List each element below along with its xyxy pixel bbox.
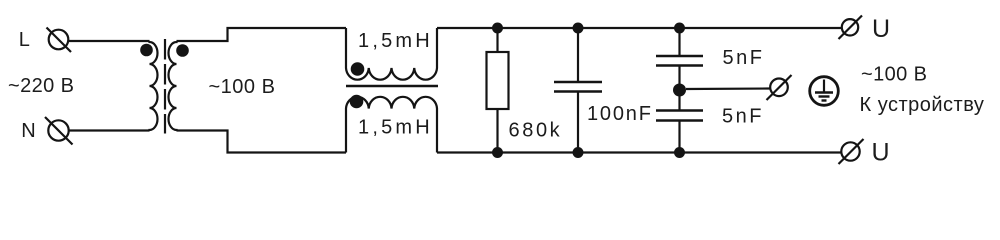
svg-text:~220 В: ~220 В bbox=[8, 75, 74, 97]
svg-text:~100 В: ~100 В bbox=[861, 64, 927, 86]
wire bottom rail bbox=[437, 151, 841, 153]
svg-text:U: U bbox=[872, 139, 890, 167]
inductor L2 polarity dot bbox=[350, 95, 364, 109]
junction node bottom of C3 bbox=[674, 147, 685, 158]
wire N to transformer primary bottom bbox=[70, 129, 150, 131]
capacitor C3 5nF bottom bbox=[656, 96, 703, 153]
inductor L1 polarity dot bbox=[351, 62, 365, 76]
svg-text:N: N bbox=[21, 120, 35, 142]
terminal U top bbox=[839, 16, 863, 40]
transformer T1 core (dashed) bbox=[164, 39, 166, 134]
junction node top of R1 bbox=[492, 23, 503, 34]
capacitor C1 100nF bbox=[554, 28, 602, 153]
junction node between C2 and C3 bbox=[673, 84, 686, 97]
terminal N bbox=[45, 117, 73, 145]
transformer T1 primary polarity dot bbox=[140, 44, 153, 57]
junction node bottom of R1 bbox=[492, 147, 503, 158]
wire secondary top to choke bbox=[177, 28, 347, 41]
transformer T1 secondary winding bbox=[169, 41, 177, 131]
svg-text:К устройству: К устройству bbox=[860, 94, 985, 116]
wire capacitor midpoint to earth terminal bbox=[686, 87, 770, 90]
svg-text:U: U bbox=[872, 15, 890, 43]
junction node top of C2 bbox=[674, 23, 685, 34]
inductor L1 top choke winding bbox=[346, 28, 437, 80]
junction node bottom of C1 bbox=[573, 147, 584, 158]
wire top rail bbox=[437, 27, 841, 29]
resistor R1 680k bbox=[487, 28, 509, 153]
terminal L bbox=[47, 28, 72, 53]
junction node top of C1 bbox=[573, 23, 584, 34]
choke core line bbox=[346, 85, 438, 88]
inductor L2 bottom choke winding bbox=[346, 97, 437, 153]
transformer T1 secondary polarity dot bbox=[176, 44, 189, 57]
svg-text:5nF: 5nF bbox=[722, 106, 764, 128]
wire L to transformer primary top bbox=[69, 40, 150, 42]
svg-text:680k: 680k bbox=[509, 120, 563, 142]
svg-text:5nF: 5nF bbox=[723, 47, 765, 69]
terminal U bottom bbox=[839, 139, 864, 164]
protective earth symbol bbox=[810, 77, 839, 106]
wire secondary bottom to choke bbox=[177, 131, 347, 153]
svg-text:~100 В: ~100 В bbox=[209, 76, 276, 98]
svg-text:100nF: 100nF bbox=[587, 103, 653, 125]
transformer T1 primary winding bbox=[150, 41, 158, 131]
svg-text:1,5mH: 1,5mH bbox=[358, 30, 433, 52]
svg-text:L: L bbox=[19, 29, 30, 51]
svg-text:1,5mH: 1,5mH bbox=[358, 116, 433, 138]
terminal earth tap bbox=[767, 75, 792, 100]
capacitor C2 5nF top bbox=[656, 28, 703, 84]
